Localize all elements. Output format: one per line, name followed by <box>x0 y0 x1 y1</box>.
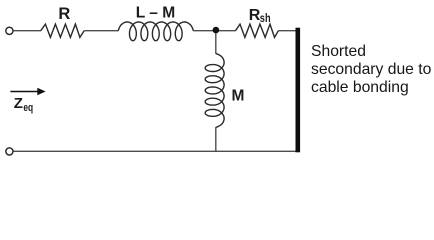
svg-text:L – M: L – M <box>136 4 176 21</box>
svg-text:eq: eq <box>23 102 33 114</box>
svg-text:sh: sh <box>260 11 271 25</box>
svg-text:Z: Z <box>14 95 23 112</box>
svg-text:M: M <box>232 88 245 105</box>
svg-text:R: R <box>58 5 70 23</box>
